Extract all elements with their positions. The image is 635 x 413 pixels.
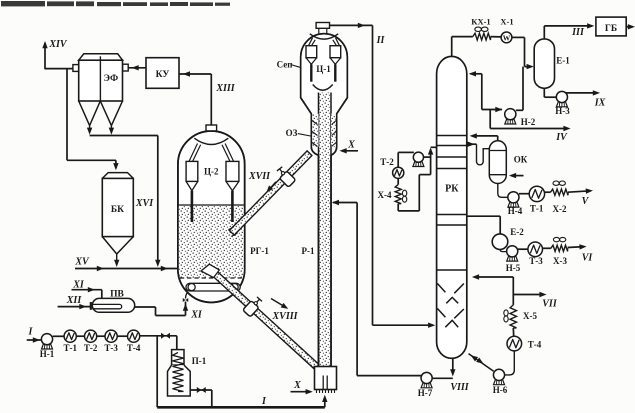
svg-text:Х-2: Х-2 bbox=[553, 204, 567, 214]
svg-text:XVIII: XVIII bbox=[271, 311, 298, 322]
svg-text:Х-3: Х-3 bbox=[553, 256, 567, 266]
svg-text:IX: IX bbox=[594, 98, 606, 109]
svg-text:III: III bbox=[571, 27, 585, 38]
svg-text:W: W bbox=[503, 33, 511, 42]
svg-text:РГ-1: РГ-1 bbox=[250, 246, 269, 256]
svg-text:ОЗ: ОЗ bbox=[286, 128, 298, 138]
svg-text:Х-4: Х-4 bbox=[378, 190, 392, 200]
svg-text:X: X bbox=[347, 140, 355, 151]
svg-text:XI: XI bbox=[190, 310, 203, 321]
svg-text:XV: XV bbox=[74, 257, 90, 268]
svg-text:Е-1: Е-1 bbox=[556, 56, 570, 66]
svg-text:Н-5: Н-5 bbox=[506, 263, 521, 273]
svg-text:ГБ: ГБ bbox=[605, 24, 617, 34]
svg-text:ПВ: ПВ bbox=[110, 289, 124, 299]
svg-text:Т-3: Т-3 bbox=[104, 343, 118, 353]
svg-text:Т-4: Т-4 bbox=[528, 340, 542, 350]
svg-text:Н-7: Н-7 bbox=[418, 388, 433, 398]
svg-text:РК: РК bbox=[445, 184, 459, 195]
svg-text:IV: IV bbox=[555, 132, 568, 143]
svg-text:Т-4: Т-4 bbox=[127, 343, 141, 353]
svg-text:ОК: ОК bbox=[514, 155, 528, 165]
svg-text:Х-1: Х-1 bbox=[500, 16, 513, 26]
svg-text:Сеп: Сеп bbox=[277, 60, 293, 70]
svg-text:XIII: XIII bbox=[215, 83, 235, 94]
svg-text:X: X bbox=[293, 380, 301, 391]
svg-text:Т-3: Т-3 bbox=[529, 256, 543, 266]
svg-text:КУ: КУ bbox=[156, 70, 170, 80]
svg-text:VI: VI bbox=[582, 253, 594, 264]
svg-text:Т-1: Т-1 bbox=[530, 204, 544, 214]
svg-text:БК: БК bbox=[111, 205, 124, 215]
svg-text:ЭФ: ЭФ bbox=[103, 74, 118, 84]
svg-text:П-1: П-1 bbox=[192, 356, 207, 366]
svg-text:VII: VII bbox=[542, 299, 558, 310]
svg-text:Р-1: Р-1 bbox=[302, 246, 315, 256]
svg-text:Н-1: Н-1 bbox=[40, 349, 55, 359]
svg-text:Т-1: Т-1 bbox=[63, 343, 77, 353]
svg-text:Т-2: Т-2 bbox=[380, 157, 394, 167]
svg-text:Н-3: Н-3 bbox=[555, 106, 570, 116]
svg-text:Н-6: Н-6 bbox=[493, 385, 508, 395]
svg-text:XVII: XVII bbox=[248, 171, 271, 182]
svg-text:Е-2: Е-2 bbox=[510, 227, 524, 237]
svg-text:XIV: XIV bbox=[48, 39, 68, 50]
svg-text:VIII: VIII bbox=[450, 382, 469, 393]
svg-text:Т-2: Т-2 bbox=[84, 343, 98, 353]
svg-text:КХ-1: КХ-1 bbox=[471, 16, 490, 26]
svg-text:Н-2: Н-2 bbox=[521, 117, 536, 127]
svg-text:Н-4: Н-4 bbox=[508, 206, 523, 216]
svg-text:Ц-2: Ц-2 bbox=[204, 167, 219, 177]
svg-text:Х-5: Х-5 bbox=[523, 311, 537, 321]
svg-text:XVI: XVI bbox=[135, 198, 154, 209]
svg-text:II: II bbox=[376, 35, 386, 46]
svg-text:Ц-1: Ц-1 bbox=[316, 64, 331, 74]
